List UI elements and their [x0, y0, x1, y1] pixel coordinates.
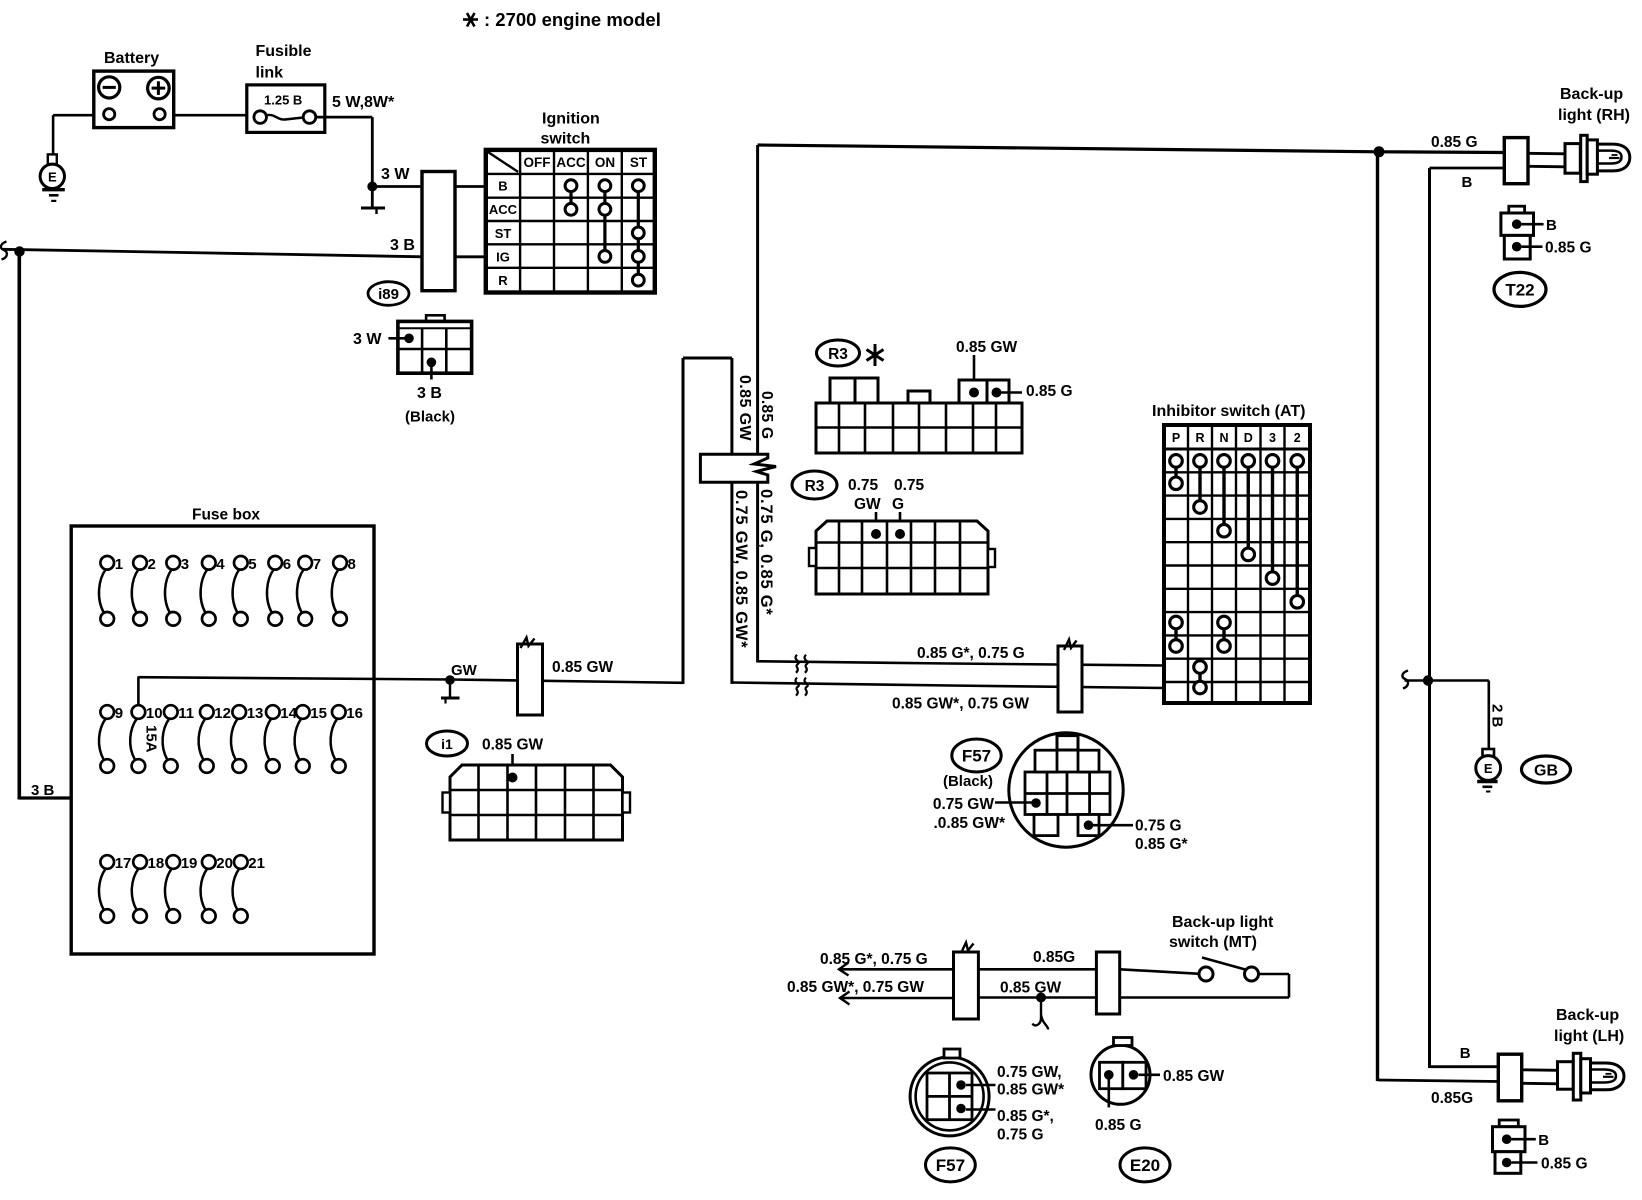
svg-text:21: 21	[248, 855, 265, 872]
svg-text:0.85 G: 0.85 G	[758, 391, 775, 439]
svg-text:3: 3	[181, 556, 189, 573]
svg-text:2: 2	[1294, 431, 1301, 445]
svg-text:Inhibitor switch (AT): Inhibitor switch (AT)	[1152, 403, 1305, 420]
svg-text:GW: GW	[854, 496, 881, 513]
svg-text:18: 18	[148, 855, 165, 872]
svg-text:i1: i1	[441, 736, 453, 752]
svg-text:0.85 G*,: 0.85 G*,	[997, 1108, 1054, 1125]
svg-text:0.85 GW: 0.85 GW	[1163, 1068, 1225, 1085]
svg-text:D: D	[1244, 431, 1253, 445]
svg-text:5 W,8W*: 5 W,8W*	[332, 94, 395, 111]
svg-text:link: link	[256, 65, 284, 82]
svg-text:ACC: ACC	[489, 202, 518, 217]
svg-text:F57: F57	[962, 747, 991, 766]
svg-text:0.75 GW,: 0.75 GW,	[997, 1064, 1062, 1081]
svg-text:2: 2	[148, 556, 156, 573]
svg-text:19: 19	[181, 855, 198, 872]
svg-text:20: 20	[216, 855, 233, 872]
svg-text:i89: i89	[378, 286, 399, 303]
svg-text:B: B	[1546, 217, 1557, 234]
svg-text:0.85 GW: 0.85 GW	[956, 339, 1018, 356]
svg-text:B: B	[498, 179, 507, 194]
svg-text:IG: IG	[496, 250, 510, 265]
svg-text:B: B	[1460, 1045, 1471, 1062]
svg-text:3 B: 3 B	[390, 237, 415, 254]
svg-text:ST: ST	[495, 226, 512, 241]
svg-text:0.85G: 0.85G	[1033, 949, 1075, 966]
svg-text:0.85 GW: 0.85 GW	[1000, 980, 1062, 997]
svg-text:11: 11	[178, 705, 194, 722]
svg-text:Back-up: Back-up	[1556, 1007, 1619, 1024]
svg-text:17: 17	[115, 855, 132, 872]
svg-text:8: 8	[348, 556, 356, 573]
svg-text:1.25 B: 1.25 B	[264, 93, 302, 108]
svg-text:R: R	[1195, 431, 1204, 445]
svg-text:13: 13	[247, 705, 264, 722]
svg-text:10: 10	[146, 705, 163, 722]
svg-text:0.85 GW: 0.85 GW	[736, 375, 753, 441]
svg-text:0.75 GW, 0.85 GW*: 0.75 GW, 0.85 GW*	[732, 490, 750, 649]
svg-text:0.85 G: 0.85 G	[1026, 383, 1073, 400]
svg-text:light (LH): light (LH)	[1554, 1028, 1624, 1045]
svg-text:3 B: 3 B	[417, 385, 442, 402]
svg-text:.0.85 GW*: .0.85 GW*	[934, 815, 1006, 832]
svg-text:G: G	[892, 496, 904, 513]
svg-text:E: E	[48, 170, 57, 185]
svg-text:(Black): (Black)	[943, 773, 993, 790]
svg-text:Ignition: Ignition	[542, 111, 600, 128]
svg-text:0.85 G*, 0.75 G: 0.85 G*, 0.75 G	[917, 645, 1025, 662]
svg-text:R: R	[498, 273, 508, 288]
svg-text:16: 16	[346, 705, 363, 722]
svg-text:light (RH): light (RH)	[1558, 107, 1630, 124]
svg-text:0.85 GW: 0.85 GW	[482, 737, 544, 754]
svg-text:OFF: OFF	[524, 155, 551, 170]
svg-text:0.85 G: 0.85 G	[1541, 1156, 1588, 1173]
svg-text:9: 9	[115, 705, 123, 722]
svg-text:Fusible: Fusible	[256, 43, 312, 60]
svg-text:ACC: ACC	[556, 155, 585, 170]
svg-text:0.85 GW: 0.85 GW	[552, 659, 614, 676]
svg-text:4: 4	[216, 556, 225, 573]
svg-text:0.75 G: 0.75 G	[1135, 818, 1182, 835]
svg-text:E20: E20	[1130, 1156, 1160, 1175]
svg-text:P: P	[1172, 431, 1180, 445]
svg-text:0.75: 0.75	[848, 477, 879, 494]
svg-text:GW: GW	[451, 662, 478, 679]
svg-text:0.85 GW*, 0.75 GW: 0.85 GW*, 0.75 GW	[787, 979, 924, 996]
svg-text:0.75 GW: 0.75 GW	[933, 796, 995, 813]
svg-text:: 2700 engine model: : 2700 engine model	[484, 9, 661, 30]
svg-text:0.85 G*, 0.75 G: 0.85 G*, 0.75 G	[820, 951, 928, 968]
svg-text:3: 3	[1269, 431, 1276, 445]
svg-text:3 W: 3 W	[381, 166, 410, 183]
svg-text:GB: GB	[1534, 763, 1558, 780]
svg-text:Battery: Battery	[104, 50, 159, 67]
svg-text:0.85G: 0.85G	[1431, 1090, 1473, 1107]
svg-text:0.75: 0.75	[894, 477, 925, 494]
svg-text:0.85 G*: 0.85 G*	[1135, 836, 1189, 853]
svg-text:R3: R3	[828, 346, 848, 363]
svg-text:ON: ON	[595, 155, 615, 170]
svg-text:R3: R3	[805, 478, 825, 495]
svg-text:1: 1	[115, 556, 123, 573]
svg-text:0.85 G: 0.85 G	[1431, 134, 1478, 151]
svg-text:0.75 G: 0.75 G	[997, 1127, 1044, 1144]
svg-text:switch (MT): switch (MT)	[1169, 934, 1257, 951]
svg-text:2 B: 2 B	[1489, 704, 1506, 728]
svg-text:Back-up: Back-up	[1560, 86, 1623, 103]
svg-text:3 B: 3 B	[31, 782, 55, 799]
svg-text:F57: F57	[936, 1156, 965, 1175]
svg-text:7: 7	[313, 556, 321, 573]
svg-text:0.75 G, 0.85 G*: 0.75 G, 0.85 G*	[757, 489, 775, 616]
svg-text:N: N	[1219, 431, 1228, 445]
svg-text:0.85 GW*, 0.75 GW: 0.85 GW*, 0.75 GW	[892, 696, 1029, 713]
svg-text:0.85 G: 0.85 G	[1095, 1117, 1142, 1134]
svg-text:B: B	[1538, 1132, 1549, 1149]
svg-text:15: 15	[310, 705, 327, 722]
svg-text:ST: ST	[630, 155, 648, 170]
svg-text:(Black): (Black)	[405, 409, 455, 426]
svg-text:3 W: 3 W	[353, 331, 382, 348]
svg-text:6: 6	[283, 556, 291, 573]
svg-text:T22: T22	[1505, 281, 1534, 300]
svg-text:Back-up light: Back-up light	[1172, 914, 1274, 931]
svg-text:5: 5	[248, 556, 256, 573]
svg-text:0.85 GW*: 0.85 GW*	[997, 1082, 1065, 1099]
svg-text:15A: 15A	[143, 725, 160, 753]
svg-text:Fuse box: Fuse box	[192, 507, 260, 524]
svg-text:E: E	[1484, 761, 1493, 776]
svg-text:B: B	[1462, 174, 1473, 191]
svg-text:0.85 G: 0.85 G	[1545, 240, 1592, 257]
svg-text:12: 12	[214, 705, 231, 722]
svg-text:switch: switch	[541, 131, 591, 148]
